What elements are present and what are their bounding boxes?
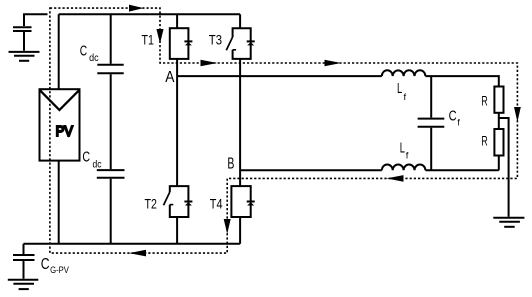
capacitor grid coupling (top-left) (13, 27, 32, 31)
svg-text:dc: dc (93, 159, 102, 171)
wire: T1 emitter to node A (176, 59, 178, 76)
svg-text:R: R (481, 92, 487, 108)
capacitor Cdc lower (97, 170, 125, 178)
svg-text:T4: T4 (210, 196, 223, 211)
wire: left rail lower (58, 161, 60, 244)
switch lever T2 (164, 192, 170, 205)
inductor Lf bottom (382, 165, 426, 171)
ground top-left (9, 52, 40, 61)
wire: phase B to load (425, 169, 498, 171)
svg-text:B: B (227, 156, 234, 173)
svg-text:T1: T1 (142, 32, 154, 47)
svg-text:f: f (404, 92, 407, 103)
wire: Cf branch upper (430, 76, 432, 118)
wire: Cdc branch middle (110, 74, 112, 169)
wire: Cf branch lower (430, 128, 432, 171)
wire: phase A rail (177, 75, 382, 77)
switch lever T3 (226, 37, 232, 50)
wire: T3 emitter down through node B (239, 59, 241, 186)
diode D1 on T1 (184, 41, 192, 45)
transistor T1 (170, 28, 189, 59)
wire: T3 collector (239, 14, 241, 28)
wire: R midpoint to ground (499, 118, 509, 217)
svg-text:PV: PV (56, 123, 73, 140)
svg-text:L: L (400, 141, 405, 157)
inductor Lf top (382, 70, 426, 76)
wire: R2 to phase B rail (498, 156, 500, 171)
wire: T2 emitter to bottom bus (176, 217, 178, 244)
arrow: loop rightward after T1 (201, 60, 218, 67)
transistor T4 (231, 186, 250, 217)
arrow: loop downward beside T4 (224, 219, 231, 234)
transistor T2 (open switch) (170, 186, 189, 217)
svg-text:C: C (41, 256, 50, 273)
svg-text:dc: dc (89, 52, 99, 64)
ground bottom-left (8, 280, 39, 289)
wire: C G-PV drop (23, 244, 25, 254)
wire: bottom return bus (24, 243, 241, 245)
wire: dashed current loop (50, 8, 518, 253)
label Cf (449, 108, 461, 128)
svg-text:L: L (397, 81, 402, 97)
resistor R1 (494, 87, 503, 113)
arrow: loop top-left rightward (129, 5, 144, 12)
wire: Cdc branch upper (110, 14, 112, 64)
arrow: loop downward right side (514, 107, 521, 122)
svg-text:C: C (449, 108, 457, 125)
resistor R2 (494, 129, 503, 156)
wire: R1 to R2 (498, 113, 500, 129)
switch contact T3 (233, 49, 237, 51)
label C G-PV (41, 256, 70, 276)
label Lf bottom (400, 141, 409, 162)
svg-text:T3: T3 (209, 33, 222, 48)
svg-text:f: f (406, 151, 409, 162)
ground right (493, 218, 524, 227)
wire: T4 emitter to bottom bus (239, 217, 241, 244)
capacitor C G-PV (13, 255, 35, 260)
wire: grid branch to top bus (24, 14, 48, 26)
PV module PV (40, 89, 80, 160)
capacitor Cdc upper (97, 65, 123, 74)
arrow: loop leftward return (387, 175, 404, 182)
capacitor Cf (418, 119, 445, 127)
svg-text:C: C (82, 149, 90, 166)
diode D3 on T3 (247, 41, 255, 45)
arrow: loop rightward mid top (325, 60, 342, 67)
transistor T3 (open switch) (233, 28, 251, 59)
svg-text:R: R (481, 132, 487, 148)
wire: left rail upper (58, 14, 60, 89)
wire: capacitor to ground (23, 32, 25, 51)
wire: Cdc branch lower (110, 179, 112, 244)
arrow: loop leftward bottom (129, 250, 146, 257)
diode D2 on T2 (184, 202, 192, 206)
svg-text:C: C (80, 43, 88, 60)
label Cdc lower (82, 149, 101, 171)
wire: C G-PV to ground (23, 261, 25, 279)
arrow: loop downward beside T1 (156, 29, 163, 44)
svg-text:A: A (165, 69, 174, 86)
wire: T2 collector (176, 76, 178, 186)
wire: T1 collector (176, 14, 178, 28)
diode D4 on T4 (247, 202, 255, 206)
switch contact T2 (170, 204, 174, 206)
svg-text:T2: T2 (145, 196, 157, 211)
label Lf top (397, 81, 407, 103)
wire: top DC bus (59, 13, 240, 15)
label Cdc upper (80, 43, 99, 65)
svg-text:G-PV: G-PV (50, 265, 69, 276)
wire: phase B rail (240, 169, 382, 171)
wire: phase A to load (425, 76, 498, 86)
